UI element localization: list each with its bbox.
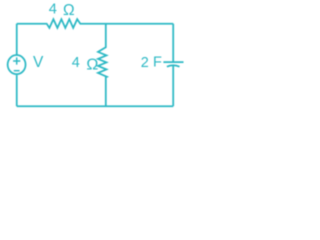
- svg-text:V: V: [33, 54, 44, 71]
- svg-text:4: 4: [72, 55, 80, 71]
- svg-text:2: 2: [141, 55, 149, 71]
- svg-text:Ω: Ω: [63, 2, 75, 19]
- svg-text:F: F: [153, 55, 162, 71]
- svg-text:Ω: Ω: [86, 56, 98, 73]
- svg-text:4: 4: [49, 2, 57, 18]
